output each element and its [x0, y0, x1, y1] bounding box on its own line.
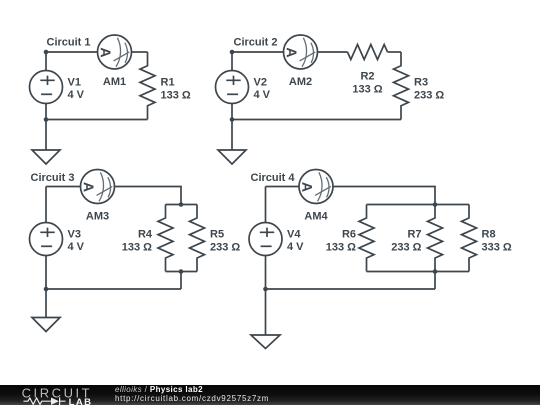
- svg-text:4 V: 4 V: [287, 241, 304, 253]
- svg-text:133 Ω: 133 Ω: [122, 242, 152, 254]
- wire: [266, 186, 300, 188]
- svg-text:4 V: 4 V: [254, 89, 271, 101]
- svg-text:333 Ω: 333 Ω: [482, 242, 512, 254]
- svg-text:233 Ω: 233 Ω: [391, 242, 421, 254]
- ammeter AM1: [98, 35, 132, 88]
- svg-text:AM1: AM1: [103, 76, 126, 88]
- wire: [45, 187, 47, 223]
- wire: [318, 51, 348, 53]
- wire: [45, 289, 47, 318]
- wire: [46, 51, 98, 53]
- wire: [265, 256, 267, 290]
- svg-text:V4: V4: [287, 229, 301, 241]
- svg-text:V3: V3: [68, 229, 81, 241]
- voltage source V3: [30, 223, 85, 256]
- voltage source V1: [30, 71, 85, 104]
- junction ground node: [230, 117, 235, 122]
- junction node: [433, 202, 438, 207]
- resistor R6: [326, 205, 374, 272]
- svg-text:4 V: 4 V: [68, 89, 85, 101]
- svg-text:V1: V1: [68, 77, 81, 89]
- voltage source V2: [216, 71, 271, 104]
- wire: [45, 52, 47, 71]
- junction node: [179, 269, 184, 274]
- svg-text:Circuit 2: Circuit 2: [234, 37, 278, 49]
- wire: [367, 271, 470, 273]
- resistor R3: [394, 52, 445, 120]
- svg-text:133 Ω: 133 Ω: [161, 89, 191, 101]
- CircuitLab logo: [12, 385, 112, 405]
- resistor R7: [391, 205, 442, 272]
- resistor R4: [122, 205, 173, 272]
- wire: [232, 51, 284, 53]
- wire: [333, 187, 435, 205]
- logo diode: [51, 397, 66, 405]
- wire: [46, 186, 81, 188]
- ground: [32, 150, 60, 164]
- wire: [266, 288, 436, 290]
- junction Circuit 1 node: [44, 50, 49, 55]
- svg-text:R4: R4: [138, 229, 153, 241]
- svg-text:V2: V2: [254, 77, 267, 89]
- ground: [218, 150, 246, 164]
- svg-text:R1: R1: [161, 76, 175, 88]
- svg-text:133 Ω: 133 Ω: [352, 84, 382, 96]
- ground: [32, 318, 60, 332]
- resistor R8: [462, 205, 512, 272]
- wire: [45, 104, 47, 120]
- ammeter AM2: [284, 35, 318, 88]
- junction Circuit 2 node: [230, 50, 235, 55]
- wire: [231, 52, 233, 71]
- svg-text:R6: R6: [342, 229, 356, 241]
- svg-text:233 Ω: 233 Ω: [210, 242, 240, 254]
- resistor R2: [348, 45, 388, 96]
- footer url: [115, 394, 269, 403]
- ammeter AM4: [299, 170, 333, 223]
- wire: [232, 119, 401, 121]
- svg-text:R7: R7: [407, 229, 421, 241]
- wire: [434, 272, 436, 290]
- wire: [231, 104, 233, 120]
- junction node: [433, 269, 438, 274]
- logo resistor squiggle: [23, 398, 51, 404]
- svg-text:133 Ω: 133 Ω: [326, 242, 356, 254]
- junction node: [179, 202, 184, 207]
- footer bar: [0, 385, 540, 405]
- junction ground node: [44, 287, 49, 292]
- footer title: [115, 385, 203, 394]
- svg-text:4 V: 4 V: [68, 241, 85, 253]
- svg-text:R8: R8: [482, 229, 496, 241]
- wire: [166, 271, 198, 273]
- svg-text:LAB: LAB: [69, 397, 93, 405]
- svg-text:Circuit 4: Circuit 4: [251, 172, 296, 184]
- wire: [132, 51, 148, 53]
- wire: [265, 289, 267, 335]
- wire: [166, 204, 198, 206]
- ammeter AM3: [81, 170, 115, 223]
- junction ground node: [263, 287, 268, 292]
- wire: [46, 119, 148, 121]
- svg-text:233 Ω: 233 Ω: [414, 89, 444, 101]
- svg-text:R2: R2: [360, 71, 374, 83]
- ground: [251, 335, 280, 349]
- svg-text:Circuit 3: Circuit 3: [31, 172, 75, 184]
- svg-text:Circuit 1: Circuit 1: [47, 37, 91, 49]
- svg-text:AM2: AM2: [289, 76, 312, 88]
- wire: [115, 187, 182, 205]
- voltage source V4: [249, 223, 304, 256]
- wire: [388, 51, 402, 53]
- wire: [231, 120, 233, 151]
- svg-text:AM4: AM4: [304, 211, 328, 223]
- svg-text:R5: R5: [210, 229, 224, 241]
- junction ground node: [44, 117, 49, 122]
- wire: [46, 288, 181, 290]
- resistor R5: [190, 205, 241, 272]
- wire: [265, 187, 267, 223]
- svg-text:AM3: AM3: [86, 211, 109, 223]
- wire: [45, 120, 47, 151]
- resistor R1: [140, 52, 191, 120]
- wire: [45, 256, 47, 290]
- wire: [180, 272, 182, 290]
- wire: [367, 204, 470, 206]
- svg-text:R3: R3: [414, 76, 428, 88]
